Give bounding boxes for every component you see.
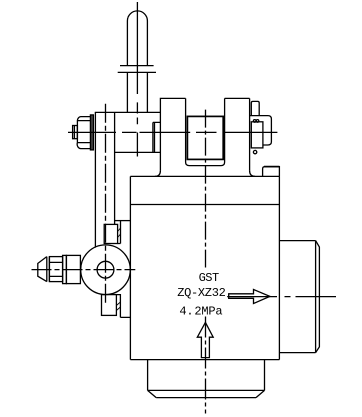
clevis bracket top edge [95,111,161,113]
top bolt head [77,117,90,149]
fitting block [66,255,80,283]
hanging block inner rect (thick) [187,116,223,159]
washer mid line [91,115,93,150]
L-plate right edge [249,98,251,170]
right bracket tiny circles [253,120,256,123]
boss chamfers [148,390,265,397]
main vertical centerline lower [205,317,207,414]
cylinder centerline [227,296,336,298]
main vertical centerline upper [205,110,207,268]
link fillet left [155,171,161,177]
pin centerline horizontal [68,131,277,133]
nut facet lines [49,262,62,276]
left arm right edge [114,112,116,224]
main body bottom edge [130,359,279,361]
boss chamfer line [148,389,265,391]
clamp bottom block [102,295,117,316]
pin strip [153,122,161,152]
pivot small circle [97,261,114,278]
svg-text:4.2MPa: 4.2MPa [179,304,222,318]
right bracket bolt [251,101,259,115]
clamp bottom strip [116,295,130,318]
boss bottom edge [156,397,256,399]
fitting cone [38,257,47,282]
center block [160,98,185,170]
clamp top hatch [118,228,121,238]
fitting washer [63,255,67,283]
bottom boss sides [148,360,265,391]
hanging block outer cup [186,98,225,165]
left arm left edge [94,112,96,247]
bolt head facet lines [77,121,90,143]
foot top edge thick [264,166,279,168]
left clamp shelf top [115,220,131,222]
main body right edge [278,176,280,359]
right bracket foot [263,167,280,177]
rod cross line lower [118,71,156,73]
bolt tip inner line [73,126,75,139]
body face line [130,204,279,206]
svg-text:ZQ-XZ32: ZQ-XZ32 [177,286,225,300]
svg-text:GST: GST [199,271,219,285]
right bracket outer [250,116,272,145]
arm / circle centerline [105,104,107,303]
right bracket lower circle [253,150,256,153]
pivot circle [81,245,131,295]
main body left edge [129,176,131,359]
cylinder chamfer [316,241,320,353]
main body top edge [130,175,279,177]
rod lower section [127,72,147,112]
right cylinder top and bottom [279,241,315,353]
rod cross line upper [120,65,154,67]
clamp bottom hatch [116,302,120,311]
right bracket inner rect [251,122,263,148]
rod centerline [136,2,138,157]
bolt thread tip [73,126,78,139]
fitting centerline [32,269,136,271]
fitting collar [47,257,50,282]
bolt washer [90,115,93,150]
clevis slot bottom line [115,151,161,153]
clamp top block [104,224,117,243]
cylinder face line [315,241,317,353]
right block arrow [229,290,270,304]
fitting nut [49,257,62,282]
L-plate fillet [250,171,256,177]
L-plate top [225,97,250,99]
clamp top strip [118,221,121,244]
top pin rod outline [127,11,147,66]
up block arrow [197,322,213,357]
